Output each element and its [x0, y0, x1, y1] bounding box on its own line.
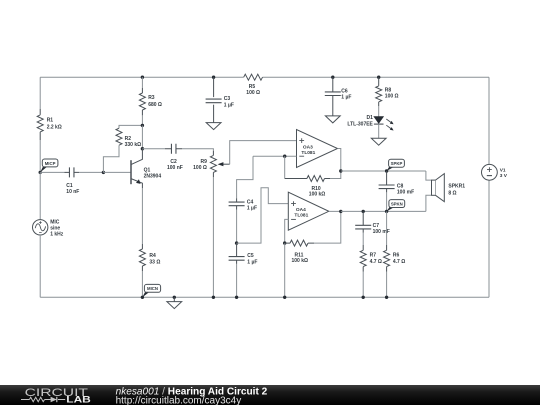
node OA3 output tee: [339, 169, 342, 172]
wire C4 node to OA4 plus: [237, 188, 289, 243]
op-amp OA4 (TL081): [288, 192, 329, 230]
wire bottom rail: [40, 296, 489, 298]
potentiometer R9: [210, 151, 216, 177]
ground below C3: [206, 123, 221, 130]
op-amp OA3 (TL081): [297, 130, 338, 168]
resistor R11: [285, 240, 314, 246]
flag SPKP: [387, 166, 394, 171]
svg-text:33 Ω: 33 Ω: [149, 259, 160, 265]
resistor R8: [376, 77, 382, 106]
wire R8 to D1: [378, 106, 380, 117]
wire R2 node to collector node: [141, 125, 143, 148]
svg-text:MIC: MIC: [50, 220, 60, 226]
svg-text:OA3: OA3: [303, 144, 313, 150]
svg-text:100 nF: 100 nF: [167, 165, 183, 171]
svg-text:4.7 Ω: 4.7 Ω: [393, 259, 405, 265]
svg-text:TL081: TL081: [294, 213, 308, 219]
wire R9 to bottom rail: [212, 177, 214, 297]
node R2 tee junction: [141, 124, 144, 127]
wire R7 to bottom rail: [362, 272, 364, 298]
wire top rail left segment: [40, 76, 244, 78]
svg-text:3 V: 3 V: [500, 173, 508, 179]
svg-text:LAB: LAB: [66, 394, 91, 404]
wire R11 node to bottom rail: [284, 243, 286, 297]
svg-text:1 kHz: 1 kHz: [50, 232, 64, 238]
svg-text:100 kΩ: 100 kΩ: [309, 192, 326, 198]
flag SPKN: [387, 206, 394, 211]
svg-text:V1: V1: [500, 167, 506, 173]
capacitor C7: [355, 225, 371, 229]
resistor R1: [37, 109, 43, 140]
wire MICP node to MIC: [39, 172, 41, 219]
flag MICP: [40, 166, 47, 173]
svg-text:R9: R9: [200, 159, 207, 165]
node ground rail junction: [173, 296, 176, 299]
resistor R6: [384, 245, 390, 272]
svg-text:100 Ω: 100 Ω: [385, 93, 399, 99]
svg-text:100 mF: 100 mF: [397, 189, 414, 195]
node R3 top junction: [141, 76, 144, 79]
wire C7 to R7: [362, 233, 364, 245]
wire R6 to bottom rail: [386, 272, 388, 298]
footer bar: [0, 385, 540, 405]
svg-text:C1: C1: [66, 183, 73, 189]
wire C2 to R9: [182, 149, 213, 151]
svg-text:TL081: TL081: [301, 150, 315, 156]
wire left rail upper: [39, 77, 41, 109]
svg-text:R6: R6: [393, 253, 400, 259]
voltage source MIC (sine 1 kHz): [33, 220, 48, 235]
LED D1 (LTL-307EE): [374, 117, 384, 124]
node OA3 minus junction: [283, 155, 286, 158]
node MICN junction: [141, 296, 144, 299]
wire MICP to C1: [40, 171, 64, 173]
node R6 bottom junction: [385, 296, 388, 299]
wire R11 to OA4 output: [314, 211, 341, 243]
svg-text:10 nF: 10 nF: [66, 189, 79, 195]
resistor R7: [360, 245, 366, 272]
wire speaker bottom lead: [426, 195, 432, 211]
node R7 bottom junction: [362, 296, 365, 299]
node MICP junction: [39, 171, 42, 174]
wire OA3 minus to R10: [284, 156, 286, 178]
wire OA4 minus input: [285, 219, 289, 243]
wire R3 node to R2 top: [119, 125, 142, 128]
svg-text:2.2 kΩ: 2.2 kΩ: [47, 124, 62, 130]
svg-text:MICN: MICN: [147, 286, 158, 291]
voltage source V1 (3 V): [482, 164, 498, 180]
node collector junction: [141, 147, 144, 150]
svg-text:4.7 Ω: 4.7 Ω: [370, 259, 382, 265]
node C6 junction: [331, 76, 334, 79]
svg-text:100 kΩ: 100 kΩ: [292, 258, 309, 264]
svg-text:1 µF: 1 µF: [224, 102, 234, 108]
svg-text:D1: D1: [366, 115, 373, 121]
wire collector to C2: [142, 148, 165, 150]
wire OA3 minus input: [253, 155, 297, 157]
wire speaker top lead: [426, 171, 432, 180]
node R11 junction: [283, 241, 286, 244]
wire C1 to base node: [79, 171, 103, 173]
wire R10 to OA3 output: [330, 149, 341, 179]
capacitor C5: [229, 257, 245, 261]
capacitor C1: [69, 167, 74, 177]
resistor R4: [139, 244, 145, 271]
wire MIC to bottom rail: [39, 235, 41, 297]
wire OA3 output to speaker top: [341, 170, 426, 172]
svg-text:SPKP: SPKP: [391, 161, 403, 166]
wire right rail upper: [488, 77, 490, 164]
svg-text:R7: R7: [370, 253, 377, 259]
capacitor C8: [379, 185, 395, 189]
capacitor C2: [171, 144, 176, 154]
node R9 bottom junction: [212, 296, 215, 299]
wire top rail to R3: [141, 77, 143, 88]
wire base node to Q1: [103, 171, 130, 173]
svg-text:SPKR1: SPKR1: [448, 184, 465, 190]
resistor R2: [116, 128, 122, 145]
node SPKP junction: [385, 169, 388, 172]
speaker SPKR1 (8 ohm): [432, 180, 436, 195]
wire emitter to R4: [141, 188, 143, 244]
node C7 junction: [362, 210, 365, 213]
ground at bottom rail: [173, 297, 175, 301]
node C3 junction: [212, 76, 215, 79]
resistor R10: [285, 176, 330, 182]
wire minus node to C4: [237, 156, 253, 198]
resistor R3: [139, 88, 145, 115]
node SPKN junction: [385, 210, 388, 213]
svg-text:C6: C6: [341, 89, 348, 95]
svg-text:LTL-307EE: LTL-307EE: [347, 122, 373, 128]
capacitor C4: [229, 202, 245, 206]
wire D1 to ground: [378, 124, 380, 138]
logo wire: [21, 399, 65, 401]
logo diode: [51, 397, 57, 402]
node C5 bottom junction: [235, 296, 238, 299]
ground below D1: [371, 138, 386, 145]
svg-text:SPKN: SPKN: [391, 201, 403, 206]
flag MICN: [142, 291, 149, 297]
logo resistor: [29, 397, 44, 401]
wire R9 wiper to OA3 plus: [230, 141, 297, 165]
wire C5 to bottom rail: [236, 264, 238, 297]
node C4-C5 junction: [235, 241, 238, 244]
node base junction: [102, 171, 105, 174]
wire R1 to MICP node: [39, 140, 41, 172]
svg-text:R1: R1: [47, 117, 54, 123]
wire top rail right segment: [263, 76, 490, 78]
svg-text:R3: R3: [148, 95, 155, 101]
wire C4 to C5 node: [236, 210, 238, 244]
ground below C6: [325, 116, 340, 123]
resistor R5: [244, 74, 263, 80]
svg-text:MICP: MICP: [45, 161, 56, 166]
svg-text:OA4: OA4: [296, 207, 306, 213]
svg-text:100 Ω: 100 Ω: [246, 90, 260, 96]
svg-text:8 Ω: 8 Ω: [448, 190, 456, 196]
wire OA4 output to speaker bottom: [341, 210, 426, 212]
svg-text:http://circuitlab.com/cay3c4y: http://circuitlab.com/cay3c4y: [116, 396, 242, 405]
svg-text:2N3904: 2N3904: [144, 174, 162, 180]
svg-text:680 Ω: 680 Ω: [148, 102, 162, 108]
svg-text:C5: C5: [247, 253, 254, 259]
svg-text:C2: C2: [170, 159, 177, 165]
svg-text:100 mF: 100 mF: [373, 229, 390, 235]
svg-text:C4: C4: [247, 199, 254, 205]
svg-text:R4: R4: [149, 253, 156, 259]
node R11 bottom junction: [283, 296, 286, 299]
transistor Q1 (2N3904): [131, 149, 142, 165]
svg-text:1 µF: 1 µF: [247, 259, 257, 265]
node OA4 output junction: [339, 210, 342, 213]
wire C8 to SPKN node: [386, 192, 388, 211]
wire R2 bottom to base node: [103, 145, 119, 172]
wire SPKN to R6: [386, 211, 388, 245]
wire R3 to R2 node: [141, 115, 143, 125]
svg-text:1 µF: 1 µF: [341, 95, 351, 101]
svg-text:1 µF: 1 µF: [247, 206, 257, 212]
capacitor C3: [213, 77, 215, 97]
wire right rail lower: [488, 180, 490, 297]
svg-text:C3: C3: [224, 96, 231, 102]
capacitor C6: [332, 77, 334, 92]
svg-text:330 kΩ: 330 kΩ: [125, 142, 142, 148]
wire R4 to bottom rail: [141, 271, 143, 297]
svg-text:100 Ω: 100 Ω: [193, 165, 207, 171]
node R8 junction: [377, 76, 380, 79]
